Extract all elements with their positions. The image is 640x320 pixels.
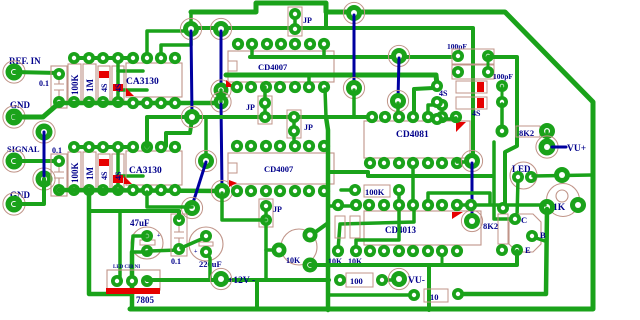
op-amp U2 pin1 red triangle xyxy=(124,176,132,184)
jumper JP-C pad top xyxy=(288,111,300,123)
wire 4S to 8K2-1 xyxy=(500,104,504,131)
op-amp U1 top pads xyxy=(127,52,139,64)
svg-text:+12V -: +12V - xyxy=(228,276,255,286)
transistor Q2 pad B xyxy=(526,230,538,242)
jumper pad ringed F xyxy=(195,150,216,171)
wire section1 top bus xyxy=(74,56,133,60)
svg-text:+: + xyxy=(194,249,198,255)
wire inner loop ringed E to CA3130-2 pin xyxy=(166,120,192,146)
svg-text:CD4007: CD4007 xyxy=(258,62,288,72)
jumper JP-D pads xyxy=(260,200,272,212)
diode 4S-6 red band xyxy=(477,98,484,108)
wire LED to Q1 base pad xyxy=(533,175,592,176)
ic U3 top pads xyxy=(232,38,244,50)
transistor Q2 pad C xyxy=(509,213,521,225)
svg-text:100pF: 100pF xyxy=(493,72,513,81)
capacitor 100pF-1 pads xyxy=(452,50,464,62)
wire branch into CA3130-2 xyxy=(118,174,143,178)
resistor 100K-h pads xyxy=(349,184,361,196)
wire ringed G to CA3130 pin xyxy=(147,192,192,207)
regulator 7805 outline xyxy=(107,270,160,290)
diode 4S-5 outline xyxy=(456,81,487,93)
ic U6 pin1 red triangle xyxy=(452,212,463,219)
jumper wire blue F xyxy=(398,58,399,99)
wire stub pin to JP-B xyxy=(263,87,267,103)
svg-text:4S: 4S xyxy=(114,171,123,180)
wire stub 4081 pad to ringed pad xyxy=(457,160,472,164)
connector pad GND 2 xyxy=(3,193,25,215)
jumper pad ringed on border xyxy=(343,2,364,23)
wire stub 100pF right pads xyxy=(487,56,490,72)
resistor 100K-h outline xyxy=(364,185,390,197)
wire branch y172-178 to right xyxy=(328,172,492,176)
svg-text:CD4007: CD4007 xyxy=(264,164,294,174)
wire B pad link to vertical xyxy=(533,237,545,241)
jumper pad ringed L xyxy=(461,150,482,171)
transistor Q2 outline xyxy=(509,214,541,252)
resistor 100K outline xyxy=(68,64,81,104)
wire stub JP-C pads xyxy=(292,117,296,146)
connector pad VU- xyxy=(388,268,409,289)
svg-text:SIGNAL: SIGNAL xyxy=(7,144,40,154)
svg-text:10: 10 xyxy=(430,292,439,302)
wire 10K-2 bottom elbow under U6 xyxy=(356,207,399,250)
diode 4S-3 red band xyxy=(99,159,109,166)
diode 4S-3 outline xyxy=(98,154,110,190)
capacitor 0.1-3 outline xyxy=(171,214,187,256)
svg-text:10K: 10K xyxy=(286,256,301,265)
board outline top/right/bottom border trace xyxy=(130,3,593,309)
jumper pad JP top B xyxy=(289,23,301,35)
jumper pad ringed K xyxy=(387,90,408,111)
capacitor C2 pads xyxy=(53,155,65,167)
wire 220uF down to 12V trace xyxy=(206,252,210,280)
ic U5 top pads xyxy=(366,111,378,123)
capacitor 0.1-3 pads xyxy=(173,214,185,226)
svg-text:100K: 100K xyxy=(70,162,80,183)
wire stub C-D xyxy=(219,90,223,102)
wire elbow to U5 pad xyxy=(428,105,442,117)
trimmer pads xyxy=(303,228,318,243)
diode 4S-4 pads xyxy=(112,141,124,153)
svg-text:E: E xyxy=(525,245,531,255)
wire U1 pin to top-left jumper xyxy=(147,31,191,58)
wire long vertical x328 to bottom border xyxy=(326,117,328,310)
transistor Q2 pad E xyxy=(511,244,523,256)
diode 4S-3 pads xyxy=(97,141,109,153)
transistor Q1 inner circle xyxy=(556,190,568,202)
wire 10K-1 bottom elbow under U6 xyxy=(338,206,414,250)
jumper pad mid-left A xyxy=(33,121,55,143)
svg-text:100K: 100K xyxy=(70,74,80,95)
jumper JP top outline xyxy=(288,7,302,36)
jumper pad JP top A xyxy=(289,8,301,20)
svg-text:4S: 4S xyxy=(472,109,481,118)
pad elbow xyxy=(436,99,448,111)
wire 47uF to 0.1 bottom xyxy=(149,250,179,251)
jumper pad ringed H xyxy=(211,180,232,201)
jumper pad top-left ringed B xyxy=(210,18,231,39)
svg-text:C: C xyxy=(521,215,527,225)
svg-text:B: B xyxy=(540,230,546,240)
wire trimmer left arm xyxy=(266,248,279,252)
svg-text:VU+: VU+ xyxy=(567,144,586,154)
connector pad +12V xyxy=(210,268,231,289)
jumper wire blue G xyxy=(471,163,474,219)
wire section1 bottom bus xyxy=(59,101,221,106)
diode 4S-1 pads xyxy=(97,52,109,64)
wire 12V horizontal xyxy=(147,278,329,282)
resistor 100 pads xyxy=(334,274,346,286)
diode 4S-4 red band xyxy=(113,175,123,183)
jumper pad top-left ringed A xyxy=(180,18,201,39)
capacitor 100pF-1 outline xyxy=(452,49,494,64)
capacitor 47uF outline circle xyxy=(131,227,163,259)
op-amp U2 bottom pads xyxy=(127,184,139,196)
wire section2 bottom bus xyxy=(59,190,222,191)
wire x120 vertical to 7805 pad1 xyxy=(117,211,120,281)
ic U4 bottom pads xyxy=(231,185,243,197)
jumper pad ringed E xyxy=(181,106,202,127)
svg-text:JP: JP xyxy=(246,103,255,112)
ic CD4081 U5 outline xyxy=(364,121,470,158)
diode 4S-5 pads xyxy=(431,80,443,92)
capacitor 100pF-2 pads xyxy=(452,66,464,78)
resistor 1M-2 pads xyxy=(83,141,95,153)
wire stub from border step down to bus xyxy=(324,4,328,28)
led LED1 outline circle xyxy=(510,162,537,189)
wire 8K2 to VU+ xyxy=(545,131,549,147)
wire stub top-left pad to border xyxy=(189,13,193,29)
resistor 8K2-2 pads xyxy=(497,202,509,214)
diode 4S-1 red band xyxy=(99,71,109,78)
wire long horizontal y=117 xyxy=(147,117,372,147)
capacitor 220uF stripe xyxy=(199,242,213,246)
ic U5 pin1 red triangle xyxy=(456,122,466,132)
svg-text:4S: 4S xyxy=(100,171,109,180)
jumper pad mid ringed C xyxy=(211,80,231,100)
wire stub pin to bus xyxy=(250,44,254,57)
svg-text:0.1: 0.1 xyxy=(171,257,181,266)
wire stub JP-B pads xyxy=(263,103,267,117)
jumper pad ringed I xyxy=(343,77,364,98)
diode 4S-2 outline xyxy=(112,66,124,102)
jumper pad ringed J on y57 xyxy=(388,45,409,66)
wire stub 100K left xyxy=(341,188,355,192)
regulator 7805 pads xyxy=(111,275,123,287)
svg-text:0.1: 0.1 xyxy=(39,79,49,88)
ic CD4007 U4 outline xyxy=(228,153,334,184)
svg-text:GND: GND xyxy=(10,100,31,110)
ic U6 bottom pads xyxy=(332,245,344,257)
wire REF.IN to C1 xyxy=(14,72,58,73)
capacitor C1 pad top xyxy=(53,68,65,80)
jumper wire blue E xyxy=(353,15,356,86)
ic CD4007 U3 outline xyxy=(228,51,334,82)
led pads xyxy=(512,171,524,183)
svg-text:8K2: 8K2 xyxy=(519,128,534,138)
resistor 10 pads xyxy=(408,289,420,301)
op-amp U1 pin1 red triangle xyxy=(126,88,134,96)
jumper JP-B pad top xyxy=(259,97,271,109)
jumper JP-C outline xyxy=(287,110,301,138)
connector pad VU+ xyxy=(536,136,558,158)
jumper pad mid-left B xyxy=(33,168,55,190)
svg-text:VU-: VU- xyxy=(408,276,425,286)
svg-text:JP: JP xyxy=(273,205,282,214)
wire stub I to y117 xyxy=(352,90,356,116)
wire y295 to 10 resistor xyxy=(329,293,414,297)
connector pad GND 1 xyxy=(3,106,25,128)
diode 4S-4 outline xyxy=(112,154,124,190)
capacitor 100pF-2 outline xyxy=(452,65,494,79)
wire stub pin7 down to long vertical xyxy=(325,89,326,117)
wire stub pad to y265 xyxy=(441,251,444,265)
pad below 4S xyxy=(431,113,443,125)
wire x89 vertical from section2 xyxy=(89,191,132,294)
wire x132 vertical to bottom xyxy=(130,252,135,309)
capacitor C2 outline xyxy=(51,154,67,196)
wire vertical x494 feed xyxy=(494,142,513,219)
diode 4S-2 red band xyxy=(113,84,123,91)
wire stub to ringed pad F xyxy=(204,117,208,161)
wire row to Q1 left pad xyxy=(457,203,545,207)
wire stub K to y117 xyxy=(396,103,400,117)
wire 47uF loop left xyxy=(132,236,147,252)
jumper wire blue VU+ xyxy=(552,146,566,149)
capacitor C1 pad bottom xyxy=(53,96,65,108)
wire stub 100 to VU- xyxy=(382,278,392,282)
wire 100pF to 8K2-2 long vertical xyxy=(488,57,517,207)
svg-text:100: 100 xyxy=(350,276,363,286)
diode 4S-2 pads xyxy=(112,52,124,64)
wire section2 top bus xyxy=(74,145,133,149)
wire stub 100K to CD4013 xyxy=(397,190,401,205)
svg-text:1M: 1M xyxy=(85,79,95,93)
wire Q1 down right side to bottom xyxy=(458,209,547,294)
jumper pad ringed G xyxy=(181,197,202,218)
wire pad to 4081 corner pin xyxy=(437,118,456,119)
wire stub JP top pads xyxy=(293,14,297,29)
jumper pad mid ringed D xyxy=(211,92,231,112)
capacitor C1 outline xyxy=(51,66,67,108)
resistor 100K-2 pads xyxy=(68,141,80,153)
wire GND1 to bottom bus xyxy=(14,104,58,117)
ic U3 pin1 red triangle xyxy=(226,80,235,87)
jumper wire blue diagonal xyxy=(192,162,206,206)
wire ringed H down to JP-D xyxy=(222,193,266,220)
wire trimmer to vertical diagonal xyxy=(310,223,328,236)
resistor 10 outline xyxy=(424,289,448,302)
svg-text:7805: 7805 xyxy=(136,295,155,305)
wire 4081 pad to 4013 pad vertical xyxy=(411,163,415,205)
ic U6 top pads xyxy=(332,199,344,211)
resistor 1M pads xyxy=(83,52,95,64)
resistor 8K2-1 outline xyxy=(516,126,540,137)
ic U4 top pads xyxy=(231,140,243,152)
connector pad REF. IN xyxy=(3,61,25,83)
jumper wire blue A xyxy=(191,31,192,115)
transistor Q1 pads xyxy=(554,167,570,183)
jumper wire blue mid-left xyxy=(43,132,46,179)
wire GND2 xyxy=(14,179,44,204)
transistor Q1 outline circle xyxy=(547,184,580,217)
wire LED cathode down xyxy=(517,179,518,217)
wire power trace y=75 through U3 xyxy=(226,75,437,85)
svg-text:LED CIB NI: LED CIB NI xyxy=(113,265,140,270)
resistor 1M-2 outline xyxy=(83,152,96,192)
ic U5 bottom pads xyxy=(364,157,376,169)
resistor 1M outline xyxy=(83,64,96,104)
svg-text:4S: 4S xyxy=(114,83,123,92)
ic U3 bottom pads xyxy=(231,81,243,93)
jumper JP-B pad bottom xyxy=(259,111,271,123)
jumper JP-C pad bottom xyxy=(288,125,300,137)
ic U4 pin1 red triangle xyxy=(229,180,237,187)
op-amp CA3130 U1 outline xyxy=(126,63,182,97)
capacitor 220uF pads xyxy=(200,230,212,242)
diode 4S-1 outline xyxy=(98,66,110,102)
jumper JP-D outline xyxy=(259,199,273,227)
resistor 100 outline xyxy=(346,273,373,287)
resistor 100K-2 outline xyxy=(68,152,81,192)
diode 4S-6 outline xyxy=(456,97,487,109)
svg-text:1M: 1M xyxy=(85,167,95,181)
connector pad SIGNAL xyxy=(3,150,25,172)
capacitor 220uF outline circle xyxy=(189,227,223,261)
wire through 4S-2 xyxy=(116,58,120,102)
diode 4S-5 red band xyxy=(477,82,484,92)
svg-text:4S: 4S xyxy=(100,83,109,92)
resistor 8K2-1 pads xyxy=(496,125,509,138)
trimmer 10K outline circle xyxy=(281,229,317,265)
wire y264 long trace xyxy=(310,251,517,265)
capacitor 47uF pads xyxy=(141,230,153,242)
wire stub pin to bus 2 xyxy=(322,44,326,57)
op-amp U2 top pads xyxy=(127,141,139,153)
wire riser x429 to bottom xyxy=(427,265,431,310)
wire y211 horizontal xyxy=(90,211,179,218)
svg-text:JP: JP xyxy=(303,16,312,25)
wire SIGNAL to C2 xyxy=(14,159,58,163)
resistor 10K-1 outline xyxy=(335,216,345,238)
svg-text:+: + xyxy=(157,233,161,239)
wire y=57 bus xyxy=(250,55,458,59)
wire horizontal bus y=28 and vertical to node under 100pF xyxy=(191,28,473,159)
capacitor 47uF stripe xyxy=(140,240,155,245)
resistor 10K-2 outline xyxy=(350,216,360,238)
jumper wire blue C xyxy=(221,104,222,189)
svg-text:8K2: 8K2 xyxy=(483,221,498,231)
resistor 8K2-2 outline xyxy=(498,214,508,244)
wire stub 4S right pads xyxy=(501,86,504,102)
wire through 4S-4 xyxy=(116,147,120,190)
svg-text:CA3130: CA3130 xyxy=(129,166,162,176)
wire branch into CA3130 low xyxy=(119,88,147,92)
wire riser x257 xyxy=(255,280,259,309)
wire stub y75 to pin xyxy=(307,75,311,87)
resistor 100K pads xyxy=(68,52,80,64)
wire elbow 4081 pin to 4S pad xyxy=(414,88,433,117)
diode 4S-6 pads xyxy=(431,96,443,108)
jumper JP-B outline xyxy=(258,96,272,124)
svg-text:CD4081: CD4081 xyxy=(396,130,429,140)
svg-text:100pF: 100pF xyxy=(447,42,467,51)
jumper wire blue B xyxy=(220,31,223,88)
wire JP-D vertical xyxy=(264,206,268,280)
op-amp CA3130 U2 outline xyxy=(126,151,182,185)
wire branch into CA3130 xyxy=(118,69,143,73)
wire 0.1 to 220uF diagonal xyxy=(181,237,206,248)
svg-text:100K: 100K xyxy=(365,187,385,197)
wire 10K tops bus xyxy=(328,204,356,208)
ic CD4013 U6 outline xyxy=(364,211,481,245)
svg-text:CA3130: CA3130 xyxy=(126,77,159,87)
jumper pad ringed M xyxy=(461,210,482,231)
svg-text:JP: JP xyxy=(304,123,313,132)
op-amp U1 bottom pads xyxy=(127,97,139,109)
regulator 7805 red bar xyxy=(106,288,160,294)
wire elbow CD4013 pin y193 xyxy=(428,193,490,205)
